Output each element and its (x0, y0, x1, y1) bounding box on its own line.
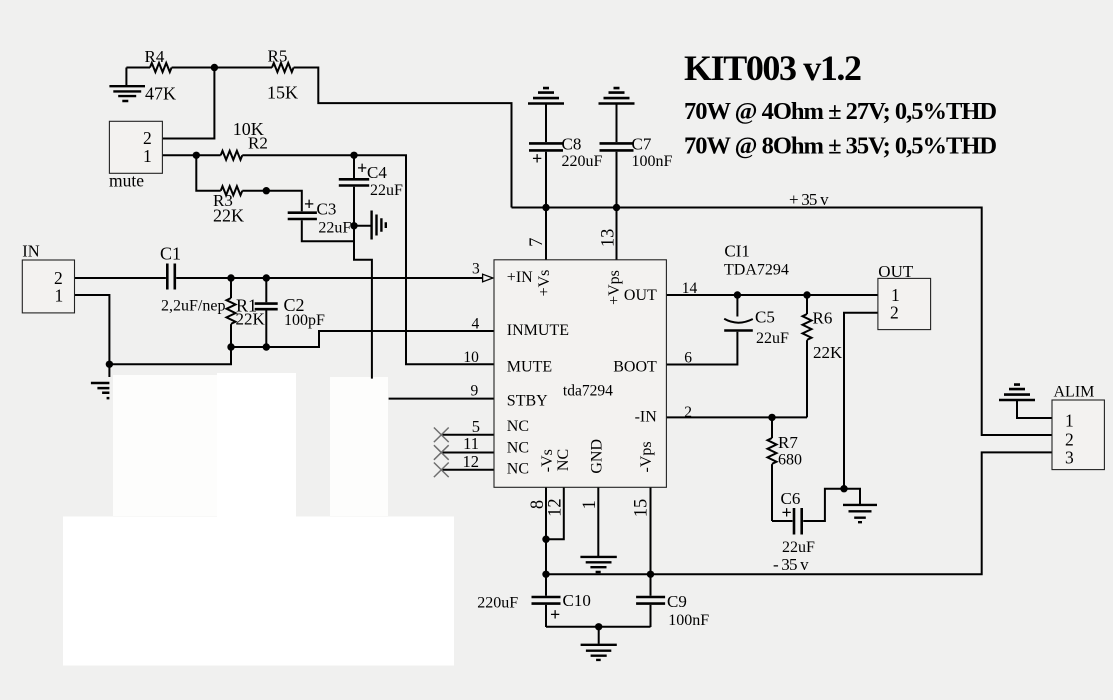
resistor R5 (272, 63, 294, 72)
svg-text:680: 680 (778, 452, 802, 469)
ground below pin1 (580, 557, 616, 572)
svg-text:12: 12 (546, 498, 566, 516)
capacitor C10 stems (545, 574, 547, 627)
svg-text:22K: 22K (213, 206, 244, 226)
svg-text:ALIM: ALIM (1054, 384, 1095, 401)
svg-text:NC: NC (507, 418, 529, 435)
svg-text:70W @ 8Ohm ± 35V; 0,5%THD: 70W @ 8Ohm ± 35V; 0,5%THD (684, 133, 996, 160)
junction C2 top (263, 274, 270, 281)
junction C2 bottom (263, 343, 270, 350)
junction C7 rail (613, 204, 620, 211)
wire C1 to +IN pin3 (176, 277, 482, 279)
svg-text:1: 1 (143, 146, 152, 166)
junction IN1 ground (106, 361, 113, 368)
svg-text:22uF: 22uF (782, 539, 815, 556)
wire C5 bottom to BOOT pin6 (666, 332, 737, 365)
wire R5 right to +35v corner (294, 68, 512, 208)
junction R7 -IN (768, 414, 775, 421)
svg-text:MUTE: MUTE (507, 358, 552, 375)
resistor R4 (150, 63, 172, 72)
svg-text:22K: 22K (813, 343, 843, 362)
svg-text:C10: C10 (563, 591, 591, 610)
svg-text:IN: IN (22, 241, 39, 260)
ground IN staircase bars (91, 383, 110, 398)
white patch center (217, 373, 296, 517)
svg-text:7: 7 (527, 238, 547, 247)
svg-text:R7: R7 (778, 433, 798, 452)
wire IC pin15 to -35v rail (650, 487, 652, 574)
connector OUT body (878, 278, 931, 329)
wire R4 to R5 junction (172, 67, 272, 69)
svg-text:15K: 15K (267, 83, 298, 103)
svg-text:22K: 22K (236, 310, 266, 329)
wire C10 C9 bottom (546, 626, 651, 628)
svg-text:2: 2 (1065, 430, 1074, 450)
svg-text:220uF: 220uF (562, 153, 603, 170)
capacitor C9 plates (636, 597, 665, 604)
svg-text:OUT: OUT (878, 262, 914, 281)
capacitor C8 plates (529, 143, 563, 150)
wire R4 left lead (126, 67, 150, 69)
capacitor C8 stems (545, 104, 547, 208)
wire +35v rail to ALIM pin2 (512, 208, 1053, 436)
junction C4 ground (350, 222, 357, 229)
svg-text:6: 6 (684, 350, 692, 367)
svg-text:+Vps: +Vps (606, 270, 623, 305)
wire NC pin11 (441, 452, 494, 454)
resistor R2 (221, 151, 243, 160)
svg-text:100nF: 100nF (668, 612, 709, 629)
svg-text:KIT003 v1.2: KIT003 v1.2 (684, 48, 861, 88)
wire C3 bottom to ground net (302, 220, 354, 241)
wire IN pin2 to C1 (75, 277, 166, 279)
ground IN stem (108, 364, 110, 377)
resistor R1 leads (230, 278, 232, 347)
junction R3 out (263, 187, 270, 194)
connector IN body (22, 260, 74, 313)
svg-text:CI1: CI1 (724, 242, 750, 261)
capacitor C1 plates (167, 264, 175, 290)
junction C8 rail (542, 204, 549, 211)
svg-text:1: 1 (55, 286, 64, 306)
no-connect X pin5 (434, 428, 449, 478)
ground bottom bars (581, 645, 617, 660)
capacitor C10 plates (532, 597, 561, 604)
svg-text:2: 2 (890, 303, 899, 323)
wire R7 to C6 (772, 520, 793, 522)
svg-text:2,2uF/nep: 2,2uF/nep (161, 298, 225, 315)
svg-text:220uF: 220uF (477, 595, 518, 612)
svg-text:C1: C1 (160, 244, 181, 264)
svg-text:- 35 v: - 35 v (773, 555, 809, 574)
junction R4 R5 mute2 (211, 64, 218, 71)
svg-text:R6: R6 (813, 309, 833, 328)
svg-text:-Vps: -Vps (638, 441, 655, 472)
svg-text:1: 1 (1065, 411, 1074, 431)
arrow into +IN pin3 (483, 274, 493, 282)
svg-text:9: 9 (470, 383, 478, 400)
svg-text:C4: C4 (367, 163, 387, 182)
svg-text:-IN: -IN (635, 408, 658, 425)
svg-text:C5: C5 (755, 308, 775, 327)
wire OUT pin2 down (844, 313, 878, 489)
wire OUT pin14 (666, 294, 878, 296)
svg-text:+: + (532, 149, 542, 169)
svg-text:STBY: STBY (507, 392, 548, 409)
svg-text:10: 10 (463, 349, 479, 366)
svg-text:2: 2 (684, 404, 692, 421)
svg-text:14: 14 (682, 280, 698, 297)
svg-text:3: 3 (472, 261, 480, 278)
svg-text:TDA7294: TDA7294 (724, 262, 789, 279)
svg-text:R5: R5 (268, 47, 288, 66)
junction R1 top (227, 274, 234, 281)
svg-text:15: 15 (632, 499, 652, 518)
svg-text:+: + (357, 158, 367, 178)
svg-text:+ 35 v: + 35 v (789, 190, 829, 209)
wire IC pin8 to -35v rail (545, 487, 547, 574)
capacitor C5 curved plate (724, 319, 753, 323)
ground above C8 (528, 88, 564, 103)
svg-text:GND: GND (589, 439, 606, 474)
junction C5 pin14 (734, 291, 741, 298)
wire R3 branch drop (196, 155, 220, 190)
svg-text:R4: R4 (145, 47, 165, 66)
no-connect X pin11 (434, 445, 449, 460)
svg-text:22uF: 22uF (318, 219, 351, 236)
junction R2 C4 (350, 152, 357, 159)
capacitor C3 plates (288, 213, 317, 219)
capacitor C4 plates (339, 179, 369, 185)
svg-text:+: + (550, 605, 560, 625)
svg-text:22uF: 22uF (370, 182, 403, 199)
svg-text:70W @ 4Ohm ± 27V; 0,5%THD: 70W @ 4Ohm ± 27V; 0,5%THD (684, 98, 996, 125)
svg-text:BOOT: BOOT (613, 358, 657, 375)
resistor R7 leads (771, 417, 773, 521)
svg-text:C7: C7 (632, 135, 652, 154)
capacitor C5 straight plate (724, 329, 753, 332)
svg-text:tda7294: tda7294 (563, 383, 613, 400)
resistor R6 (803, 314, 812, 340)
resistor R7 (768, 438, 777, 464)
wire C6 to ground net (803, 489, 860, 521)
connector mute body (109, 121, 162, 173)
wire pin13 to +35v rail (616, 208, 618, 260)
svg-text:3: 3 (1065, 448, 1074, 468)
white patch right of IN area (330, 377, 388, 516)
svg-text:C8: C8 (562, 135, 582, 154)
wire -IN pin2 (666, 416, 807, 418)
wire IC pin1 GND stem (597, 487, 599, 556)
ground below OUT pin2 net (843, 505, 877, 522)
junction mute1 R2 R3 (193, 152, 200, 159)
capacitor C5 top stem (736, 295, 738, 317)
IC U1 TDA7294 body (494, 260, 666, 488)
svg-text:+: + (782, 503, 792, 523)
svg-text:+IN: +IN (507, 269, 533, 286)
wire C4 top stem (353, 155, 355, 178)
junction C10 rail (542, 571, 549, 578)
svg-text:mute: mute (109, 171, 144, 191)
svg-text:+Vs: +Vs (536, 270, 553, 297)
wire IN pin1 ground net to INMUTE pin4 (75, 295, 495, 364)
svg-text:+: + (304, 194, 314, 214)
junction C9 rail (647, 571, 654, 578)
ground R4 stem (125, 68, 127, 86)
wire mute pin1 (162, 154, 196, 156)
wire NC pin5 (441, 434, 494, 436)
wire C4 bottom to gnd corner (354, 187, 372, 379)
resistor R6 leads (806, 295, 808, 417)
white patch left (113, 375, 296, 516)
svg-text:C9: C9 (667, 592, 687, 611)
wire node mute1 to R2 (196, 154, 220, 156)
capacitor C2 plates (255, 304, 278, 310)
svg-text:2: 2 (143, 128, 152, 148)
svg-text:11: 11 (463, 434, 479, 453)
svg-text:12: 12 (463, 452, 480, 471)
ground R4 bars (109, 86, 145, 101)
svg-text:C3: C3 (317, 200, 337, 219)
ground above ALIM pin1 (999, 385, 1035, 400)
white patch bottom-left (63, 517, 454, 666)
wire pin7 to +35v rail (545, 208, 547, 260)
wire mute pin2 (162, 68, 214, 139)
junction R6 pin14 (803, 291, 810, 298)
capacitor C7 stems (616, 104, 618, 208)
ground above C7 (599, 88, 635, 103)
capacitor C9 stems (650, 574, 652, 627)
junction OUT2 ground (840, 485, 847, 492)
svg-text:R2: R2 (248, 134, 268, 153)
connector ALIM body (1052, 400, 1104, 470)
wire IC pin12 stub (546, 487, 564, 539)
svg-text:100nF: 100nF (632, 153, 673, 170)
wire C4 ground stub (354, 225, 371, 227)
svg-text:INMUTE: INMUTE (507, 322, 569, 339)
capacitor C2 stems (265, 278, 267, 347)
svg-text:1: 1 (580, 500, 600, 509)
svg-text:NC: NC (555, 449, 572, 471)
svg-text:NC: NC (507, 461, 529, 478)
wire ALIM pin1 to ground (1017, 401, 1052, 419)
capacitor C7 plates (600, 143, 634, 150)
resistor R3 (221, 186, 243, 195)
svg-text:100pF: 100pF (284, 312, 325, 329)
svg-text:-Vs: -Vs (539, 449, 556, 472)
no-connect X pin12 (434, 463, 449, 478)
wire R2 to MUTE pin10 (242, 155, 494, 364)
svg-text:13: 13 (598, 229, 618, 248)
svg-text:47K: 47K (145, 84, 176, 104)
capacitor C6 plates (794, 508, 802, 535)
wire NC pin12 (441, 469, 494, 471)
ground bottom stem (598, 627, 600, 644)
svg-text:NC: NC (507, 440, 529, 457)
svg-text:22uF: 22uF (756, 330, 789, 347)
wire -35v rail to ALIM pin3 (546, 452, 1052, 574)
ground right of C4 (rotated) (372, 211, 386, 240)
junction pin8 pin12 (542, 536, 549, 543)
junction bottom ground (595, 623, 602, 630)
resistor R1 (227, 298, 236, 324)
wire R3 to C3 (242, 191, 301, 212)
svg-text:OUT: OUT (624, 287, 657, 304)
junction R1 bottom (227, 343, 234, 350)
svg-text:4: 4 (472, 316, 480, 333)
wire STBY pin9 (389, 398, 494, 400)
